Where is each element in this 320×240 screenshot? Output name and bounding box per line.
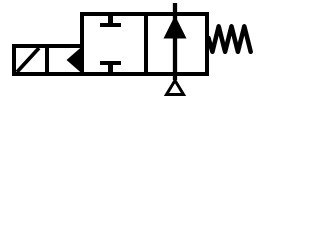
flow arrow vertical line (right square) <box>173 3 177 80</box>
actuator box (solenoid) <box>14 46 82 74</box>
top T blocked port (left square) <box>100 15 121 25</box>
divider between position squares <box>144 12 148 76</box>
actuator divider <box>45 44 49 76</box>
flow arrow head <box>164 16 187 39</box>
return spring zigzag <box>209 26 251 52</box>
solenoid diagonal <box>17 48 39 72</box>
valve schematic: 3/2-way solenoid valve with spring return <box>0 0 270 102</box>
exhaust triangle (vent) <box>167 81 184 95</box>
actuator arrowhead triangle <box>67 48 81 71</box>
valve body outer rectangle <box>82 14 207 74</box>
bottom T blocked port (left square) <box>100 63 121 73</box>
